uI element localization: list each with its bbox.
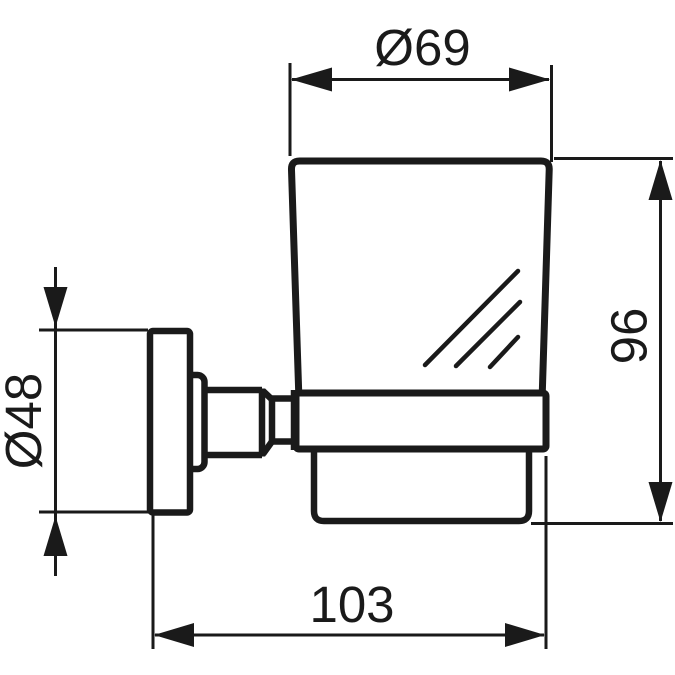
svg-text:96: 96 bbox=[601, 308, 658, 365]
svg-text:103: 103 bbox=[309, 576, 394, 633]
svg-text:Ø48: Ø48 bbox=[0, 373, 52, 469]
svg-text:Ø69: Ø69 bbox=[374, 19, 470, 76]
